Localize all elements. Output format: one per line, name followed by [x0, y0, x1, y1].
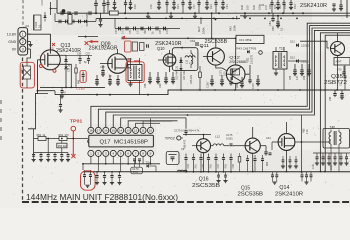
svg-text:D11: D11 — [247, 57, 250, 62]
svg-text:C64: C64 — [190, 39, 196, 43]
svg-text:16: 16 — [104, 129, 108, 133]
svg-text:100k: 100k — [233, 25, 237, 31]
svg-text:17: 17 — [97, 129, 101, 133]
svg-text:C55: C55 — [159, 29, 162, 34]
svg-text:R42: R42 — [229, 26, 233, 31]
svg-text:Q14: Q14 — [279, 185, 289, 191]
svg-text:13.8V: 13.8V — [7, 33, 17, 37]
svg-text:C163: C163 — [34, 21, 38, 28]
svg-text:Q16: Q16 — [199, 176, 209, 182]
svg-text:L11: L11 — [185, 59, 189, 64]
svg-text:3: 3 — [22, 47, 24, 51]
svg-text:C58: C58 — [100, 66, 105, 69]
svg-text:R43 C66 TP03: R43 C66 TP03 — [236, 47, 256, 51]
svg-text:D14: D14 — [146, 162, 151, 165]
svg-text:C45: C45 — [115, 29, 118, 34]
svg-text:C179 0.001 R54 4.7k: C179 0.001 R54 4.7k — [174, 128, 200, 132]
svg-text:C58: C58 — [144, 83, 147, 88]
svg-text:0.01: 0.01 — [259, 3, 265, 7]
svg-text:C86: C86 — [290, 75, 292, 80]
svg-text:0.01: 0.01 — [224, 71, 227, 76]
svg-text:D08 1SS355: D08 1SS355 — [86, 12, 89, 27]
svg-text:R27: R27 — [197, 26, 201, 32]
svg-text:1SS53: 1SS53 — [301, 44, 309, 48]
svg-text:C57: C57 — [192, 4, 196, 9]
svg-text:0.001: 0.001 — [226, 136, 233, 140]
svg-text:R60: R60 — [59, 134, 64, 137]
svg-text:2SC535B: 2SC535B — [192, 183, 220, 189]
svg-text:C172: C172 — [252, 83, 255, 89]
svg-text:0.01: 0.01 — [166, 29, 169, 34]
svg-text:11: 11 — [141, 129, 144, 133]
svg-text:R61: R61 — [195, 163, 198, 168]
svg-text:L12: L12 — [215, 134, 220, 138]
svg-text:R63: R63 — [225, 163, 228, 168]
svg-text:2SK192AGR: 2SK192AGR — [89, 46, 118, 52]
svg-text:C89: C89 — [304, 75, 306, 80]
svg-text:100k: 100k — [202, 27, 206, 34]
svg-text:2: 2 — [22, 40, 24, 44]
svg-text:C24: C24 — [266, 137, 271, 140]
svg-text:1SS278: 1SS278 — [251, 54, 254, 64]
svg-text:2SK2410R: 2SK2410R — [275, 191, 303, 197]
svg-text:C97: C97 — [217, 163, 220, 168]
svg-text:2SC535B: 2SC535B — [238, 191, 264, 197]
svg-text:R35: R35 — [278, 4, 282, 9]
svg-text:T46: T46 — [330, 126, 336, 130]
svg-text:R62: R62 — [210, 163, 213, 168]
svg-text:1: 1 — [22, 33, 24, 37]
svg-text:R61: R61 — [37, 134, 42, 137]
svg-text:C51: C51 — [129, 29, 132, 34]
svg-text:0.1: 0.1 — [281, 27, 284, 31]
svg-text:C95: C95 — [202, 163, 205, 168]
svg-text:470: 470 — [65, 134, 70, 137]
svg-text:13: 13 — [126, 129, 130, 133]
svg-text:Q30: Q30 — [21, 68, 24, 73]
svg-text:0.01: 0.01 — [297, 75, 299, 80]
svg-text:10: 10 — [149, 129, 153, 133]
svg-text:MC145158P: MC145158P — [114, 140, 149, 146]
svg-text:C165: C165 — [207, 82, 210, 88]
svg-text:C99: C99 — [232, 163, 235, 168]
svg-text:C60: C60 — [159, 83, 162, 88]
svg-text:100: 100 — [273, 4, 277, 9]
svg-text:R35: R35 — [252, 5, 256, 10]
svg-text:R66: R66 — [267, 161, 269, 166]
svg-text:R36: R36 — [268, 4, 272, 9]
svg-text:C93: C93 — [187, 163, 190, 168]
svg-text:144MHz MAIN UNIT F2888101(No.6: 144MHz MAIN UNIT F2888101(No.6xxx) — [26, 192, 178, 202]
svg-text:100: 100 — [283, 4, 287, 9]
svg-text:C61: C61 — [225, 4, 229, 9]
svg-text:C69: C69 — [272, 26, 275, 31]
svg-text:4.7k: 4.7k — [306, 129, 309, 134]
svg-text:14: 14 — [119, 129, 123, 133]
svg-text:R36: R36 — [240, 5, 244, 10]
svg-text:C50: C50 — [149, 4, 153, 9]
svg-text:100: 100 — [246, 5, 250, 10]
svg-text:R59 220: R59 220 — [58, 145, 68, 148]
svg-text:C94: C94 — [329, 96, 332, 101]
svg-text:2SK2410R: 2SK2410R — [300, 3, 327, 9]
svg-text:220: 220 — [232, 72, 237, 75]
svg-text:12: 12 — [134, 129, 138, 133]
svg-text:D10 HVU131: D10 HVU131 — [176, 65, 179, 80]
svg-text:C36 1p: C36 1p — [69, 64, 71, 72]
svg-text:Q11: Q11 — [200, 43, 210, 49]
svg-text:GND: GND — [8, 40, 16, 44]
svg-text:0.01: 0.01 — [137, 29, 140, 34]
svg-text:15: 15 — [112, 129, 116, 133]
svg-text:R16: R16 — [133, 4, 137, 9]
svg-text:2SB772: 2SB772 — [324, 80, 347, 86]
svg-text:C81: C81 — [268, 21, 272, 26]
svg-text:A7HT: A7HT — [336, 61, 343, 64]
svg-text:R34: R34 — [293, 4, 297, 9]
svg-text:G: G — [43, 52, 45, 56]
svg-text:9V: 9V — [12, 47, 17, 51]
svg-text:R21: R21 — [176, 4, 180, 9]
svg-text:Q10: Q10 — [157, 46, 165, 51]
svg-text:C160: C160 — [42, 0, 44, 6]
svg-text:R45 22k: R45 22k — [190, 74, 193, 84]
svg-text:C101: C101 — [313, 163, 315, 169]
svg-text:R23: R23 — [209, 4, 213, 9]
svg-text:0.01: 0.01 — [122, 29, 125, 34]
svg-text:R28: R28 — [144, 29, 147, 34]
svg-text:CF1 455E: CF1 455E — [239, 38, 252, 42]
svg-text:D13: D13 — [290, 55, 295, 59]
svg-text:TP01: TP01 — [70, 119, 83, 124]
svg-text:TP02: TP02 — [165, 136, 175, 140]
svg-text:R47 10k: R47 10k — [183, 70, 186, 80]
svg-text:R48: R48 — [236, 83, 239, 88]
svg-text:Q12: Q12 — [229, 56, 240, 60]
svg-text:D12: D12 — [290, 40, 295, 44]
svg-text:18: 18 — [89, 129, 93, 133]
svg-text:C103: C103 — [331, 164, 333, 170]
svg-text:R58 470: R58 470 — [184, 139, 187, 149]
svg-text:C183: C183 — [76, 86, 85, 90]
svg-text:Q17: Q17 — [100, 140, 111, 146]
